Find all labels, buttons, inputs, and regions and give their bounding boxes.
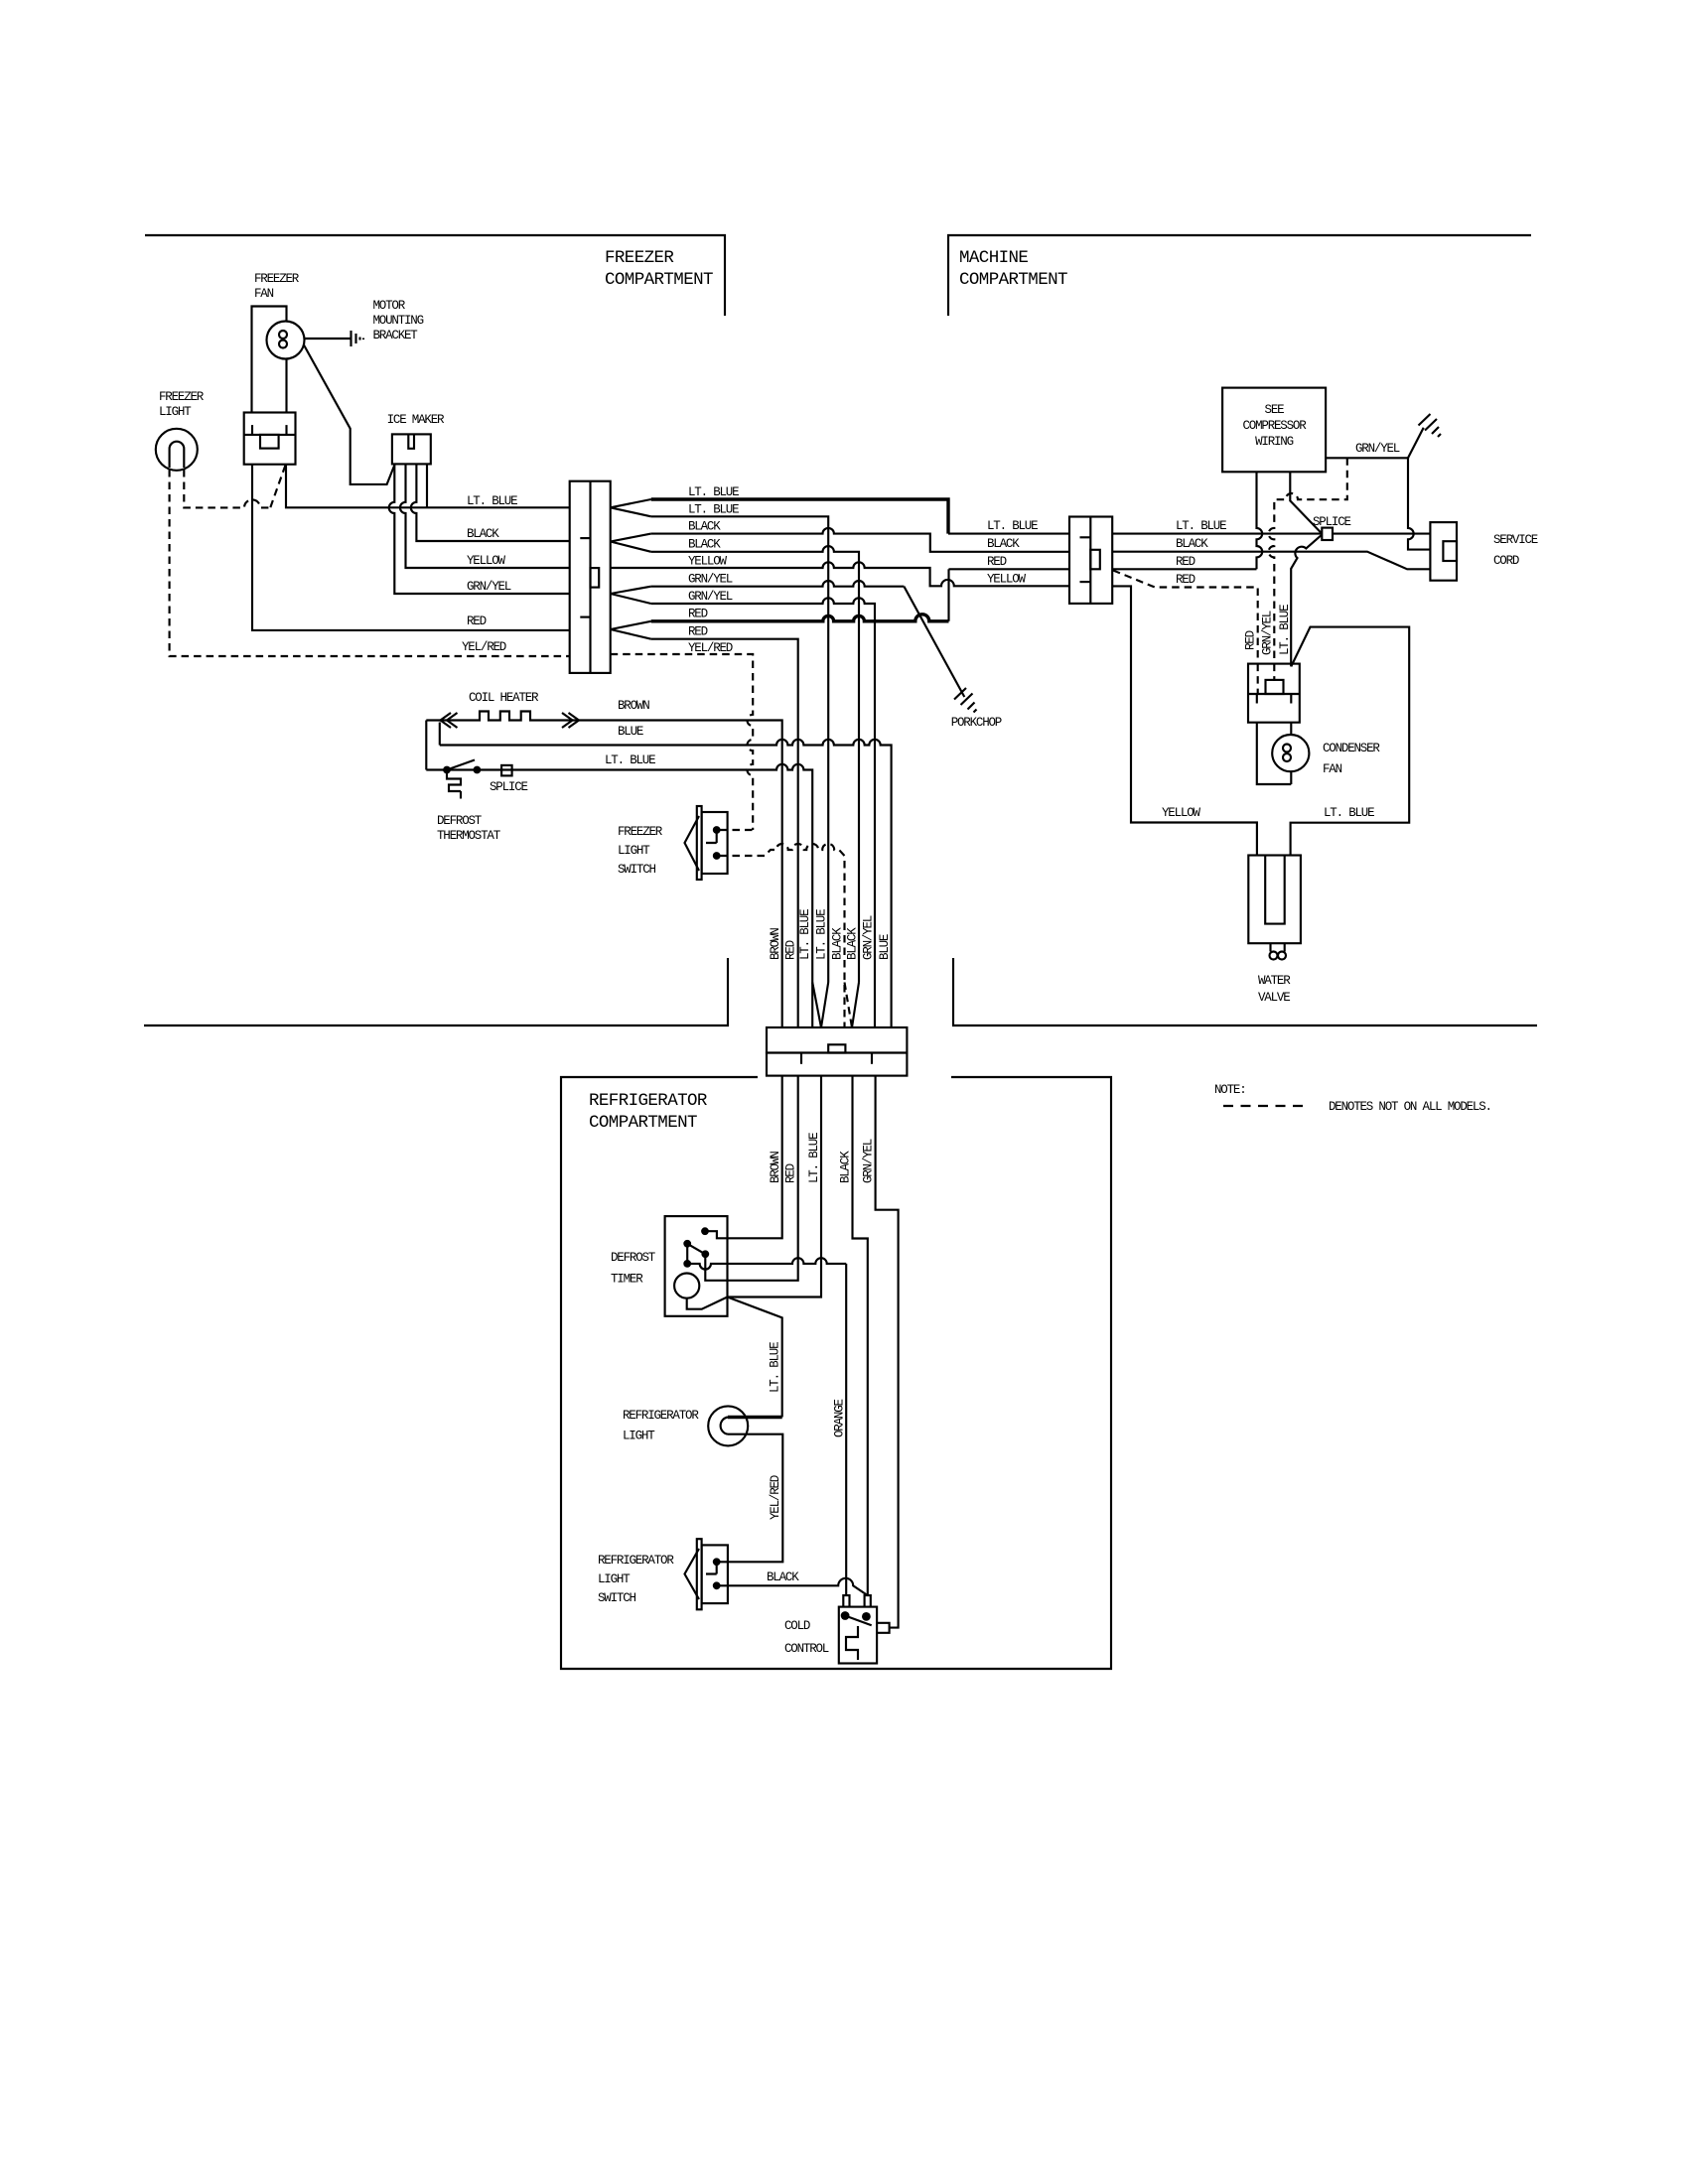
- grn/yel wire from motor to ice maker pin1: [304, 345, 394, 484]
- svg-text:COMPARTMENT: COMPARTMENT: [959, 270, 1067, 290]
- lt.blue wire relay to loop: [1291, 627, 1410, 856]
- svg-text:DEFROST: DEFROST: [437, 814, 483, 828]
- svg-text:REFRIGERATOR: REFRIGERATOR: [589, 1091, 708, 1111]
- svg-text:NOTE:: NOTE:: [1214, 1083, 1246, 1097]
- brown wire to bundle: [583, 721, 782, 1028]
- J1 pin taper black: [611, 534, 651, 552]
- svg-text:GRN/YEL: GRN/YEL: [1355, 442, 1400, 456]
- svg-text:BLUE: BLUE: [878, 934, 892, 960]
- lt.blue wire timer to refrigerator light: [728, 1297, 782, 1418]
- freezer light switch pin1: [713, 826, 721, 834]
- note dashed sample: [1223, 1105, 1309, 1107]
- red wire relay to connector: [252, 465, 570, 630]
- water valve lead right: [1284, 943, 1286, 951]
- lt.blue wire J3 to defrost timer motor: [728, 1076, 822, 1297]
- svg-text:REFRIGERATOR: REFRIGERATOR: [598, 1554, 674, 1568]
- wire relay to condenser fan: [1290, 723, 1292, 735]
- svg-text:BRACKET: BRACKET: [373, 329, 419, 342]
- svg-text:BROWN: BROWN: [769, 928, 782, 960]
- blue wire to bundle: [440, 740, 892, 1027]
- red dashed stub inside relay: [1257, 664, 1259, 693]
- connector J1 key notch: [591, 568, 600, 588]
- svg-text:LT. BLUE: LT. BLUE: [1176, 519, 1226, 533]
- svg-text:MOTOR: MOTOR: [373, 299, 406, 313]
- svg-text:LT. BLUE: LT. BLUE: [798, 909, 812, 960]
- defrost timer lever: [687, 1244, 705, 1255]
- svg-text:BROWN: BROWN: [618, 699, 649, 713]
- water valve body: [1248, 856, 1301, 944]
- defrost thermostat sensor zigzag: [447, 772, 461, 791]
- svg-text:RED: RED: [467, 614, 487, 628]
- svg-text:YEL/RED: YEL/RED: [462, 640, 506, 654]
- blue tap wire: [439, 723, 441, 746]
- motor mounting bracket lead: [305, 338, 351, 340]
- svg-text:LIGHT: LIGHT: [598, 1572, 631, 1586]
- defrost timer pin3: [701, 1250, 709, 1258]
- refrigerator light switch pin1: [713, 1558, 721, 1566]
- refrigerator light switch lever wedge: [685, 1549, 700, 1599]
- svg-text:LT. BLUE: LT. BLUE: [815, 909, 829, 960]
- svg-text:FREEZER: FREEZER: [618, 825, 663, 839]
- svg-text:BLACK: BLACK: [846, 927, 860, 960]
- svg-text:BROWN: BROWN: [769, 1152, 782, 1183]
- svg-text:THERMOSTAT: THERMOSTAT: [437, 829, 501, 843]
- splice (freezer) square: [501, 765, 511, 776]
- lt.blue wire 2 to bundle: [651, 516, 829, 982]
- svg-text:REFRIGERATOR: REFRIGERATOR: [623, 1409, 699, 1423]
- grn/yel dashed compressor to relay: [1269, 458, 1347, 663]
- svg-text:CONDENSER: CONDENSER: [1323, 742, 1380, 755]
- black pair converge to J3: [845, 983, 853, 1028]
- brown wire J3 to defrost timer pin1: [705, 1076, 782, 1239]
- grn/yel wire J3 to cold control side terminal: [876, 1076, 899, 1628]
- svg-text:TIMER: TIMER: [611, 1273, 643, 1287]
- coil heater left terminal wire: [425, 721, 427, 770]
- condenser fan bypass wire: [1257, 723, 1292, 784]
- svg-text:RED: RED: [784, 1163, 798, 1183]
- svg-text:ORANGE: ORANGE: [833, 1399, 847, 1437]
- ice maker pin3 wire black: [411, 464, 570, 541]
- refrigerator light bulb: [708, 1406, 748, 1445]
- coil heater connector chevrons right: [562, 713, 579, 728]
- svg-text:RED: RED: [1176, 573, 1196, 587]
- defrost thermostat lever: [447, 760, 475, 770]
- svg-text:YELLOW: YELLOW: [1162, 806, 1201, 820]
- svg-text:FAN: FAN: [1323, 762, 1342, 776]
- relay key notch: [260, 435, 279, 449]
- grn/yel wire compressor to antenna: [1326, 458, 1430, 549]
- orange wire to cold control: [845, 1264, 847, 1595]
- defrost timer pin4: [683, 1260, 691, 1268]
- svg-text:RED: RED: [784, 940, 798, 960]
- red wire J2 to compressor lead: [1112, 568, 1256, 570]
- cold control pin left: [841, 1611, 850, 1620]
- red wire bold to machine: [651, 614, 949, 621]
- black wire switch to cold control: [720, 1578, 868, 1595]
- cold control body: [839, 1607, 877, 1664]
- connector J1 freezer harness: [570, 481, 611, 673]
- J1 pin taper lt.blue: [611, 499, 651, 516]
- svg-text:BLACK: BLACK: [767, 1570, 799, 1584]
- lt.blue wire relay to connector: [286, 465, 570, 508]
- cold control terminal stub right: [865, 1595, 871, 1607]
- service cord plug: [1430, 522, 1457, 581]
- J1 pin taper grn/yel: [611, 587, 651, 604]
- cold control sensor zigzag: [846, 1626, 858, 1660]
- wire fan motor to relay: [285, 359, 287, 413]
- svg-text:LT. BLUE: LT. BLUE: [605, 753, 655, 767]
- cold control side terminal: [877, 1623, 890, 1633]
- yel/red dashed wire to switch pin1: [720, 829, 753, 831]
- service cord key notch: [1443, 541, 1457, 561]
- svg-text:GRN/YEL: GRN/YEL: [862, 915, 876, 960]
- yellow wire to machine: [611, 562, 1069, 586]
- svg-text:RED: RED: [688, 608, 708, 621]
- condenser fan coil marks: [1283, 745, 1291, 752]
- svg-text:SEE: SEE: [1265, 403, 1285, 417]
- svg-text:SWITCH: SWITCH: [618, 863, 656, 877]
- refrigerator light switch body: [702, 1545, 728, 1603]
- cold control lever: [845, 1616, 872, 1626]
- freezer light bulb: [156, 429, 198, 471]
- svg-text:SPLICE: SPLICE: [1313, 515, 1351, 529]
- connector J1 polarity tick lower: [580, 616, 590, 618]
- refrigerator light top lead bold: [728, 1416, 782, 1419]
- refrigerator light switch pin2: [713, 1581, 721, 1589]
- grn/yel antenna hatch: [1419, 414, 1442, 437]
- porkchop hatch: [954, 688, 977, 713]
- svg-text:WIRING: WIRING: [1255, 435, 1294, 449]
- svg-text:BLACK: BLACK: [688, 538, 721, 552]
- freezer light switch mounting plate: [697, 806, 702, 880]
- svg-text:FREEZER: FREEZER: [605, 248, 674, 268]
- connector J2 machine harness: [1069, 517, 1112, 604]
- defrost thermostat pin right: [474, 766, 482, 774]
- relay divider: [1248, 693, 1300, 695]
- yellow wire J2 to water valve loop: [1112, 586, 1257, 855]
- svg-text:YEL/RED: YEL/RED: [769, 1475, 782, 1520]
- relay divider: [244, 434, 296, 436]
- svg-text:LT. BLUE: LT. BLUE: [688, 503, 739, 517]
- freezer light switch lever wedge: [685, 816, 700, 871]
- ice maker top notch: [408, 434, 414, 448]
- ice maker pin4 wire lt.blue: [426, 464, 428, 507]
- grn/yel antenna lead: [1408, 428, 1424, 459]
- svg-text:LT. BLUE: LT. BLUE: [987, 519, 1038, 533]
- yel/red wire light to switch: [720, 1434, 782, 1563]
- connector J3 cabinet harness upper row: [767, 1027, 907, 1053]
- svg-text:BLACK: BLACK: [831, 927, 845, 960]
- svg-text:YELLOW: YELLOW: [987, 573, 1027, 587]
- machine compartment bottom border: [953, 958, 1537, 1025]
- connector J2 key notch: [1090, 550, 1100, 570]
- svg-text:LIGHT: LIGHT: [618, 844, 650, 858]
- coil heater connector chevrons left: [441, 713, 458, 728]
- freezer light filament: [170, 442, 185, 468]
- porkchop lead: [904, 587, 964, 697]
- connector J2 polarity tick upper: [1080, 536, 1091, 538]
- refrigerator light switch mounting plate: [697, 1539, 702, 1609]
- connector J1 center line: [589, 481, 591, 673]
- svg-text:YEL/RED: YEL/RED: [688, 641, 733, 655]
- lt.blue wire splice to service cord: [1333, 533, 1430, 535]
- svg-text:BLACK: BLACK: [1176, 537, 1208, 551]
- svg-text:SPLICE: SPLICE: [490, 780, 528, 794]
- yel/red dashed wire from freezer light left leg: [170, 470, 570, 656]
- cold control pin right: [862, 1612, 871, 1621]
- defrost timer pin1: [701, 1227, 709, 1235]
- freezer light switch internal contacts: [706, 832, 717, 843]
- svg-text:GRN/YEL: GRN/YEL: [467, 580, 511, 594]
- grn/yel dashed stub inside relay: [1273, 664, 1275, 681]
- connector J1 polarity tick upper: [580, 537, 590, 539]
- svg-text:LIGHT: LIGHT: [159, 405, 192, 419]
- condenser fan motor lower lead: [1290, 771, 1292, 784]
- black wire J2 to service cord: [1112, 552, 1430, 570]
- water valve lead left: [1269, 943, 1271, 951]
- black wire 2 to bundle: [651, 546, 859, 982]
- motor mounting bracket ground symbol: [350, 331, 352, 346]
- relay key notch: [1266, 680, 1284, 694]
- svg-text:GRN/YEL: GRN/YEL: [862, 1139, 876, 1183]
- black wire 1 to machine: [651, 528, 1069, 552]
- freezer compartment border: [145, 235, 725, 316]
- svg-text:SWITCH: SWITCH: [598, 1591, 636, 1605]
- defrost timer pin2: [683, 1240, 691, 1248]
- svg-text:RED: RED: [987, 555, 1007, 569]
- connector J3 tick left: [800, 1053, 802, 1064]
- svg-text:BLACK: BLACK: [467, 527, 499, 541]
- svg-text:LT. BLUE: LT. BLUE: [807, 1133, 821, 1183]
- relay pin stub left: [251, 425, 253, 435]
- lt.blue pair converge to J3: [812, 983, 828, 1028]
- grn/yel wire 2 to bundle: [651, 598, 875, 1027]
- defrost thermostat pin left: [443, 766, 451, 774]
- svg-text:MOUNTING: MOUNTING: [373, 314, 424, 328]
- yel/red dashed wire from freezer light right leg: [184, 470, 270, 507]
- svg-text:YELLOW: YELLOW: [467, 554, 506, 568]
- black dashed wire from switch pin2: [720, 844, 845, 1027]
- lt.blue wire J2 to splice: [1112, 533, 1322, 535]
- defrost timer motor: [674, 1274, 699, 1298]
- svg-text:CONTROL: CONTROL: [784, 1642, 829, 1656]
- svg-text:CORD: CORD: [1493, 554, 1519, 568]
- svg-text:LIGHT: LIGHT: [623, 1430, 655, 1443]
- freezer fan motor M1: [267, 322, 305, 359]
- svg-text:DENOTES NOT ON ALL MODELS.: DENOTES NOT ON ALL MODELS.: [1329, 1100, 1491, 1114]
- refrigerator light switch internal contacts: [706, 1564, 717, 1574]
- ice maker body: [392, 434, 431, 464]
- svg-text:RED: RED: [1244, 630, 1258, 650]
- cold control terminal stub left: [843, 1595, 849, 1607]
- ice maker pin2 wire yellow: [400, 464, 570, 568]
- freezer light switch pin2: [713, 852, 721, 860]
- water valve coil: [1270, 952, 1278, 960]
- svg-text:WATER: WATER: [1258, 974, 1291, 988]
- svg-text:BLACK: BLACK: [839, 1151, 853, 1183]
- defrost thermostat lt.blue row: [426, 764, 812, 1027]
- svg-text:GRN/YEL: GRN/YEL: [1261, 611, 1275, 655]
- svg-text:RED: RED: [688, 625, 708, 639]
- freezer compartment bottom border: [144, 958, 728, 1025]
- water valve slot: [1265, 856, 1285, 924]
- yel/red dashed branch to relay: [270, 466, 285, 508]
- svg-text:COMPARTMENT: COMPARTMENT: [589, 1113, 697, 1133]
- compressor wiring box: [1222, 388, 1326, 473]
- relay pin stub right: [1290, 694, 1292, 704]
- black wire J3 to cold control: [853, 1076, 868, 1596]
- svg-text:YELLOW: YELLOW: [688, 555, 728, 569]
- svg-text:COMPRESSOR: COMPRESSOR: [1242, 419, 1307, 433]
- machine compartment border: [948, 235, 1531, 316]
- coil heater element: [426, 712, 583, 721]
- svg-text:DEFROST: DEFROST: [611, 1251, 656, 1265]
- svg-text:PORKCHOP: PORKCHOP: [951, 716, 1002, 730]
- connector J3 lower row: [767, 1053, 907, 1076]
- lt.blue wire splice to relay: [1291, 535, 1322, 667]
- svg-text:LT. BLUE: LT. BLUE: [688, 485, 739, 499]
- relay pin stub right: [285, 425, 287, 435]
- defrost timer pin2-pin4 wire: [686, 1244, 688, 1264]
- freezer fan relay block: [244, 413, 296, 465]
- condenser fan motor M2: [1272, 735, 1309, 771]
- svg-text:COMPARTMENT: COMPARTMENT: [605, 270, 713, 290]
- defrost timer pin4 wire to orange: [687, 1258, 846, 1269]
- ice maker pin1 wire grn/yel: [389, 464, 570, 594]
- connector J2 polarity tick lower: [1080, 581, 1091, 583]
- svg-text:GRN/YEL: GRN/YEL: [688, 590, 733, 604]
- connector J3 key notch: [828, 1044, 845, 1052]
- svg-text:LT. BLUE: LT. BLUE: [1324, 806, 1374, 820]
- svg-text:VALVE: VALVE: [1258, 991, 1290, 1005]
- svg-text:LT. BLUE: LT. BLUE: [467, 494, 517, 508]
- svg-text:RED: RED: [1176, 555, 1196, 569]
- relay pin stub left: [1256, 694, 1258, 704]
- red dashed wire J2 to relay: [1113, 571, 1258, 664]
- svg-text:COIL HEATER: COIL HEATER: [469, 691, 539, 705]
- condenser fan relay block: [1248, 664, 1300, 723]
- refrigerator compartment border: [561, 1077, 1111, 1669]
- svg-text:COLD: COLD: [784, 1619, 810, 1633]
- svg-text:MACHINE: MACHINE: [959, 248, 1028, 268]
- svg-text:GRN/YEL: GRN/YEL: [688, 573, 733, 587]
- red wire J3 to defrost timer pin3: [705, 1076, 797, 1281]
- svg-text:FREEZER: FREEZER: [159, 390, 205, 404]
- compressor left lead to red: [1257, 472, 1263, 569]
- grn/yel wire 1 to porkchop: [651, 581, 905, 587]
- svg-text:LT. BLUE: LT. BLUE: [1278, 605, 1292, 655]
- lt.blue wire bold to machine: [651, 499, 948, 534]
- refrigerator light filament: [721, 1418, 728, 1434]
- freezer fan motor bypass wire: [252, 307, 287, 413]
- red wire 2 to bundle: [651, 639, 798, 1027]
- yel/red dashed wire to freezer light switch: [611, 654, 754, 830]
- freezer light switch body: [702, 812, 728, 874]
- svg-text:BLUE: BLUE: [618, 725, 643, 739]
- connector J2 center line: [1089, 517, 1091, 604]
- J1 pin taper red: [611, 621, 651, 639]
- svg-text:ICE MAKER: ICE MAKER: [387, 413, 445, 427]
- svg-text:BLACK: BLACK: [987, 537, 1020, 551]
- defrost timer box: [665, 1216, 728, 1316]
- svg-text:LT. BLUE: LT. BLUE: [769, 1342, 782, 1393]
- svg-text:FAN: FAN: [254, 287, 274, 301]
- compressor right lead to splice: [1290, 472, 1322, 533]
- svg-text:SERVICE: SERVICE: [1493, 533, 1538, 547]
- defrost timer motor lead: [687, 1297, 728, 1309]
- connector J3 tick right: [871, 1053, 873, 1064]
- svg-text:BLACK: BLACK: [688, 520, 721, 534]
- freezer fan motor coil marks: [279, 331, 287, 339]
- splice square: [1322, 528, 1333, 540]
- svg-text:FREEZER: FREEZER: [254, 272, 300, 286]
